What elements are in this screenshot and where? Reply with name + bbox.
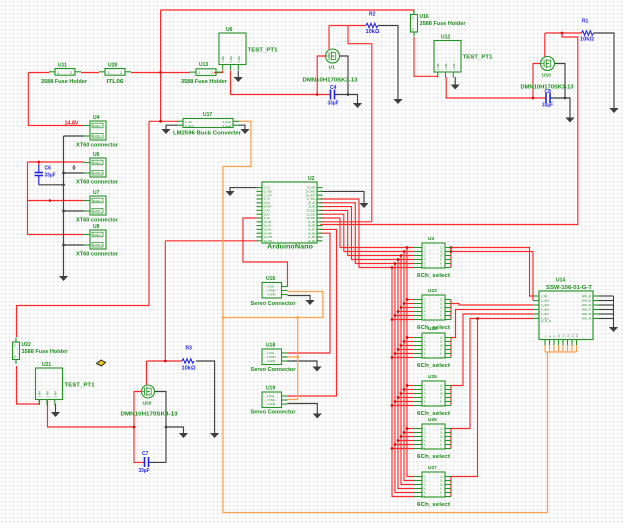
wire — [64, 244, 85, 246]
junction — [164, 360, 167, 363]
connector U7 XT60 — [76, 190, 119, 224]
capacitor C7 — [139, 451, 150, 474]
svg-text:24_D12: 24_D12 — [307, 210, 316, 213]
wire — [320, 218, 414, 248]
svg-text:R3: R3 — [186, 346, 193, 352]
junction — [450, 250, 453, 253]
wire — [576, 345, 578, 352]
wire — [395, 444, 414, 446]
resistor R2 — [366, 12, 380, 36]
resistor R3 — [182, 346, 196, 372]
wire — [166, 125, 178, 129]
wire — [451, 304, 533, 306]
wire — [407, 428, 414, 430]
wire — [348, 26, 372, 222]
svg-text:TEST_PT1: TEST_PT1 — [65, 383, 96, 389]
ground U2 left — [225, 191, 234, 196]
wire — [392, 448, 414, 450]
transistor U1 DMN10H170SK3-13 N-MOSFET — [326, 49, 340, 71]
svg-text:6_RST: 6_RST — [264, 206, 272, 209]
svg-text:10kΩ: 10kΩ — [366, 29, 380, 35]
wire — [166, 427, 184, 433]
svg-text:U18: U18 — [266, 343, 275, 349]
wire — [64, 135, 85, 137]
wire — [230, 188, 257, 191]
ground U12 — [451, 85, 460, 90]
wire — [28, 161, 85, 163]
svg-text:1_Vo: 1_Vo — [264, 187, 270, 190]
wire — [288, 356, 298, 358]
svg-text:1: 1 — [14, 344, 16, 348]
svg-text:8_A1: 8_A1 — [264, 213, 270, 216]
svg-text:19_D7: 19_D7 — [308, 229, 316, 232]
IC U2 ArduinoNano — [257, 176, 323, 251]
junction — [397, 439, 400, 442]
junction — [159, 71, 162, 74]
wire — [450, 429, 452, 449]
svg-text:2CMS: 2CMS — [93, 209, 101, 213]
junction — [391, 266, 394, 269]
svg-text:20_D8: 20_D8 — [308, 225, 316, 228]
junction — [406, 298, 409, 301]
junction — [532, 97, 535, 100]
connector U14 SSW-106-01-G-T — [533, 278, 599, 346]
svg-text:U21: U21 — [42, 362, 51, 368]
svg-text:14_3V3: 14_3V3 — [264, 236, 273, 239]
wire — [149, 120, 178, 122]
svg-text:U17: U17 — [203, 112, 212, 118]
junction — [391, 404, 394, 407]
wire — [237, 71, 239, 78]
ground U10 — [565, 118, 574, 123]
junction — [296, 316, 299, 319]
wire — [446, 77, 546, 98]
svg-text:3588 Fuse Holder: 3588 Fuse Holder — [22, 349, 68, 355]
svg-text:GND_24: GND_24 — [582, 295, 592, 298]
wire — [17, 366, 40, 404]
wire — [63, 136, 65, 276]
junction — [133, 426, 136, 429]
wire — [401, 393, 414, 395]
svg-text:3588 Fuse Holder: 3588 Fuse Holder — [41, 79, 87, 85]
ground R1 — [609, 108, 618, 113]
wire — [378, 26, 398, 100]
wire — [450, 386, 452, 406]
svg-text:U14: U14 — [556, 278, 565, 284]
svg-text:3588 Fuse Holder: 3588 Fuse Holder — [420, 21, 466, 27]
junction — [406, 427, 409, 430]
wire — [392, 319, 414, 321]
junction — [62, 183, 65, 186]
svg-text:3 GND: 3 GND — [267, 359, 276, 363]
svg-text:C4: C4 — [330, 85, 337, 91]
wire — [134, 392, 145, 463]
svg-text:1: 1 — [412, 16, 414, 20]
wire — [81, 72, 99, 74]
svg-text:9_A2: 9_A2 — [264, 217, 270, 220]
ground U1 — [353, 103, 362, 108]
junction — [403, 302, 406, 305]
wire — [146, 361, 148, 385]
junction — [400, 435, 403, 438]
svg-text:0: 0 — [73, 166, 76, 172]
svg-text:12_A5: 12_A5 — [264, 229, 272, 232]
svg-text:3 MA: 3 MA — [237, 56, 241, 63]
wire — [451, 310, 533, 338]
wire — [549, 345, 551, 352]
wire — [160, 10, 162, 121]
junction — [62, 244, 65, 247]
wire — [401, 256, 414, 485]
wire — [231, 71, 331, 95]
svg-text:U2: U2 — [308, 176, 315, 182]
junction — [564, 97, 567, 100]
junction — [397, 348, 400, 351]
svg-text:U8: U8 — [93, 224, 100, 230]
svg-text:2_GND: 2_GND — [264, 191, 272, 194]
junction — [400, 392, 403, 395]
IC U3 6Ch_select — [414, 236, 451, 279]
wire — [288, 233, 331, 353]
svg-text:14.8V: 14.8V — [65, 121, 79, 127]
svg-text:28_RST: 28_RST — [306, 194, 315, 197]
wire — [571, 345, 573, 352]
svg-text:6Ch_select: 6Ch_select — [417, 273, 450, 279]
wire — [407, 337, 414, 339]
svg-text:XT60 connector: XT60 connector — [76, 143, 119, 149]
wire — [599, 313, 614, 315]
wire — [545, 32, 582, 34]
svg-text:1: 1 — [58, 71, 60, 75]
junction — [222, 316, 225, 319]
svg-text:2: 2 — [211, 71, 213, 75]
svg-text:1Mass: 1Mass — [93, 161, 102, 165]
svg-text:U3: U3 — [428, 236, 434, 242]
IC U24 6Ch_select — [414, 326, 451, 369]
svg-text:DMN10H170SK3-13: DMN10H170SK3-13 — [121, 412, 178, 418]
svg-text:22_D10: 22_D10 — [307, 217, 316, 220]
ground XT60 bus — [59, 276, 68, 281]
transistor U20 DMN10H170SK3-13 N-MOSFET — [141, 385, 154, 407]
wire — [28, 72, 49, 74]
wire — [401, 345, 414, 347]
wire — [567, 345, 569, 352]
svg-text:11_A4: 11_A4 — [264, 225, 271, 228]
svg-text:2 MA: 2 MA — [444, 63, 448, 70]
svg-text:C7: C7 — [142, 451, 149, 457]
svg-text:U7: U7 — [93, 190, 100, 196]
cursor icon — [97, 360, 106, 366]
wire — [288, 229, 337, 396]
svg-text:TEST_PT1: TEST_PT1 — [248, 48, 279, 54]
svg-text:U6: U6 — [93, 152, 100, 158]
svg-text:U11: U11 — [58, 63, 67, 69]
capacitor C8 — [542, 89, 553, 109]
svg-text:C8: C8 — [545, 89, 552, 95]
svg-text:C6: C6 — [45, 166, 52, 172]
svg-text:2_x0u4: 2_x0u4 — [541, 300, 550, 303]
svg-text:U27: U27 — [428, 465, 437, 471]
svg-text:U10: U10 — [542, 73, 551, 79]
wire — [288, 404, 318, 414]
junction — [400, 344, 403, 347]
svg-text:U22: U22 — [22, 342, 31, 348]
svg-text:13_NR: 13_NR — [264, 232, 272, 235]
svg-text:3588 Fuse Holder: 3588 Fuse Holder — [181, 79, 227, 85]
wire — [450, 300, 452, 320]
svg-text:2 MA: 2 MA — [46, 391, 50, 398]
IC U26 6Ch_select — [414, 417, 451, 460]
svg-text:16_D4: 16_D4 — [308, 240, 316, 243]
svg-text:3 MA: 3 MA — [53, 391, 57, 398]
wire — [48, 399, 135, 427]
svg-text:U4: U4 — [93, 115, 100, 121]
ground R3 — [210, 433, 219, 438]
junction — [403, 431, 406, 434]
svg-text:DMN10H170SK3-13: DMN10H170SK3-13 — [303, 78, 358, 84]
svg-text:U24: U24 — [428, 326, 437, 332]
wire — [398, 397, 414, 399]
wire — [599, 295, 614, 297]
svg-text:17_D5: 17_D5 — [308, 236, 316, 239]
IC U17 LM2596 Buck Converter — [173, 112, 242, 137]
ground U21 — [51, 412, 60, 417]
svg-text:26_A7: 26_A7 — [308, 202, 316, 205]
svg-text:3_x0u5: 3_x0u5 — [541, 304, 550, 307]
svg-text:10_11_12: 10_11_12 — [541, 321, 552, 323]
wire — [451, 252, 533, 301]
svg-text:1Mass: 1Mass — [93, 199, 102, 203]
svg-text:R2: R2 — [369, 12, 376, 18]
wire — [392, 405, 414, 407]
svg-text:R1: R1 — [582, 19, 589, 25]
junction — [391, 447, 394, 450]
svg-text:U28: U28 — [108, 63, 117, 69]
svg-text:U13: U13 — [199, 62, 208, 68]
wire — [395, 315, 414, 317]
transistor U10 DMN10H170SK3-13 N-MOSFET — [541, 57, 555, 79]
svg-text:GND_25: GND_25 — [582, 300, 592, 303]
svg-text:2CMS: 2CMS — [93, 243, 101, 247]
wire — [320, 210, 414, 255]
svg-text:1Mass: 1Mass — [93, 124, 102, 128]
wire — [451, 248, 533, 297]
wire — [164, 241, 166, 361]
wire — [599, 300, 614, 302]
junction — [394, 262, 397, 265]
wire — [404, 432, 414, 434]
svg-text:U20: U20 — [143, 401, 152, 407]
wire — [28, 200, 85, 202]
junction — [406, 246, 409, 249]
junction — [476, 317, 479, 320]
wire — [401, 436, 414, 438]
wire — [401, 307, 414, 309]
svg-text:2: 2 — [70, 71, 72, 75]
wire — [320, 214, 414, 251]
wire — [165, 240, 256, 242]
svg-text:1 MA: 1 MA — [221, 56, 225, 63]
wire — [28, 162, 85, 235]
svg-text:3 GND: 3 GND — [267, 293, 276, 297]
wire — [594, 33, 615, 108]
junction — [403, 388, 406, 391]
wire — [317, 56, 325, 95]
junction — [450, 246, 453, 249]
wire — [243, 218, 288, 287]
wire — [451, 319, 478, 477]
connector U6 XT60 — [76, 152, 119, 186]
svg-text:XT60 connector: XT60 connector — [76, 180, 119, 186]
IC U23 6Ch_select — [414, 288, 451, 331]
fuse holder U11 — [49, 69, 81, 76]
wire — [320, 207, 414, 260]
wire — [599, 318, 614, 320]
wire — [320, 191, 364, 203]
wire — [328, 26, 330, 50]
svg-text:4_TX: 4_TX — [264, 198, 270, 201]
wire — [64, 172, 85, 174]
ground U14 — [609, 327, 618, 332]
svg-text:18_D6: 18_D6 — [308, 232, 316, 235]
svg-text:3 GND: 3 GND — [267, 402, 276, 406]
junction — [394, 352, 397, 355]
resistor R1 — [580, 19, 594, 43]
svg-text:1: 1 — [199, 71, 201, 75]
wire — [407, 299, 414, 301]
wire — [214, 71, 223, 73]
wire — [404, 252, 414, 481]
capacitor C6 — [35, 162, 56, 185]
svg-text:30_VIN: 30_VIN — [307, 187, 315, 190]
connector U8 XT60 — [76, 224, 119, 258]
wire — [451, 314, 533, 386]
ground R2 — [393, 99, 402, 104]
junction — [406, 336, 409, 339]
wire — [223, 121, 548, 512]
svg-text:GND_29: GND_29 — [582, 318, 592, 321]
svg-text:4_x0u6: 4_x0u6 — [541, 309, 550, 312]
junction — [394, 443, 397, 446]
IC U28 ITL06 — [99, 69, 131, 76]
svg-text:23_D11: 23_D11 — [307, 213, 316, 216]
svg-text:6Ch_select: 6Ch_select — [417, 363, 450, 369]
capacitor C4 — [328, 85, 339, 107]
svg-text:6Ch_select: 6Ch_select — [417, 411, 450, 417]
svg-text:3_VCP: 3_VCP — [264, 194, 272, 197]
wire — [320, 199, 414, 268]
svg-text:TEST_PT1: TEST_PT1 — [463, 55, 494, 61]
wire — [398, 440, 414, 442]
svg-text:ITL06: ITL06 — [107, 79, 124, 85]
svg-text:U26: U26 — [428, 417, 437, 423]
svg-text:5_x0u7: 5_x0u7 — [541, 313, 550, 316]
wire — [238, 125, 245, 129]
connector U16 Servo Connector — [251, 276, 297, 307]
test point U6 TEST_PT1 — [219, 27, 278, 70]
svg-text:2: 2 — [14, 355, 16, 359]
junction — [406, 384, 409, 387]
junction — [400, 306, 403, 309]
svg-text:U23: U23 — [428, 288, 437, 294]
wire — [329, 25, 366, 27]
svg-text:U6: U6 — [226, 27, 233, 33]
wire — [404, 341, 414, 343]
connector U4 XT60 — [76, 115, 119, 149]
svg-text:25_A6: 25_A6 — [308, 206, 316, 209]
junction — [391, 318, 394, 321]
junction — [316, 93, 319, 96]
junction — [397, 396, 400, 399]
svg-text:Servo Connector: Servo Connector — [251, 410, 297, 416]
test point U21 TEST_PT1 — [36, 362, 96, 405]
junction — [296, 356, 299, 359]
svg-text:1 MA: 1 MA — [38, 391, 42, 398]
svg-text:U1: U1 — [329, 65, 335, 71]
svg-text:27_5V0: 27_5V0 — [307, 198, 316, 201]
wire — [320, 33, 578, 225]
svg-text:2CMS: 2CMS — [93, 134, 101, 138]
wire — [28, 73, 84, 126]
wire — [55, 404, 57, 412]
svg-text:U12: U12 — [441, 35, 450, 41]
wire — [288, 318, 298, 400]
ground U16 servo — [305, 300, 314, 305]
wire — [454, 77, 456, 85]
svg-text:GND_28: GND_28 — [582, 313, 592, 316]
svg-text:1Mass: 1Mass — [93, 233, 102, 237]
wire — [161, 10, 414, 15]
wire — [395, 401, 414, 403]
svg-text:SSW-106-01-G-T: SSW-106-01-G-T — [546, 285, 592, 291]
wire — [64, 210, 85, 212]
svg-text:10kΩ: 10kΩ — [182, 366, 196, 372]
svg-text:33µF: 33µF — [45, 173, 56, 179]
wire — [544, 345, 546, 352]
svg-text:33µF: 33µF — [139, 468, 150, 474]
svg-text:6Ch_select: 6Ch_select — [417, 502, 450, 508]
ground U19 servo — [313, 414, 322, 419]
svg-text:3_Gnd: 3_Gnd — [223, 124, 232, 128]
wire — [395, 353, 414, 355]
svg-text:GND_27: GND_27 — [582, 309, 592, 312]
ground LM2596 left — [161, 129, 170, 134]
wire — [288, 296, 311, 301]
svg-text:2: 2 — [412, 28, 414, 32]
wire — [131, 72, 190, 74]
svg-text:33µF: 33µF — [542, 103, 553, 109]
wire — [533, 64, 541, 99]
svg-text:Servo Connector: Servo Connector — [251, 367, 297, 373]
svg-text:33µF: 33µF — [328, 101, 339, 107]
junction — [37, 161, 40, 164]
wire — [395, 264, 414, 493]
wire — [39, 184, 64, 186]
junction — [49, 199, 52, 202]
junction — [397, 258, 400, 261]
wire — [450, 477, 452, 497]
ground U20 — [179, 433, 188, 438]
svg-text:GND_26: GND_26 — [582, 304, 592, 307]
junction — [62, 172, 65, 175]
wire — [223, 292, 323, 318]
wire — [562, 345, 564, 352]
wire — [545, 351, 577, 353]
wire — [288, 361, 318, 367]
svg-text:XT60 connector: XT60 connector — [76, 252, 119, 258]
junction — [397, 310, 400, 313]
wire — [407, 248, 414, 477]
